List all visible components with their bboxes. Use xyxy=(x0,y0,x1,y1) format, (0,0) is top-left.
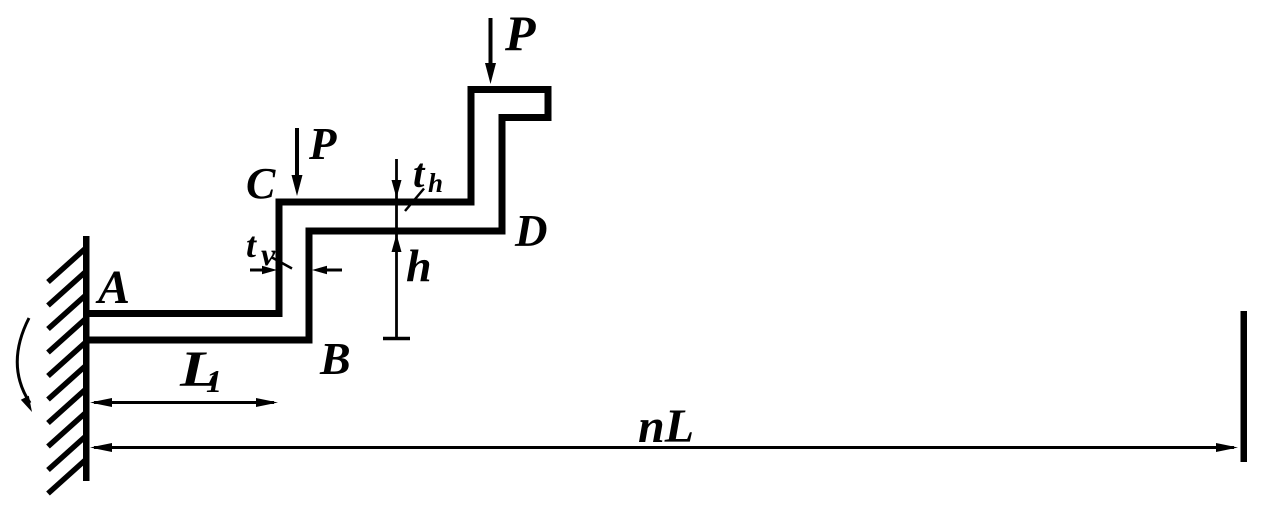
svg-text:P: P xyxy=(504,5,536,61)
svg-text:P: P xyxy=(308,119,337,169)
right end tick bar xyxy=(1241,311,1248,462)
svg-text:A: A xyxy=(95,261,130,314)
t_v dimension arrows xyxy=(250,269,266,272)
wall hatching xyxy=(48,247,87,494)
L1 dimension line xyxy=(94,401,274,404)
t_h leader line xyxy=(405,189,424,212)
svg-text:D: D xyxy=(514,206,548,256)
svg-text:1: 1 xyxy=(206,363,222,399)
svg-text:h: h xyxy=(406,240,432,291)
beam outline (stepped cantilever A-B-C-D) xyxy=(86,90,548,341)
nL dimension line xyxy=(94,446,1234,449)
load P arrow (top step) xyxy=(489,18,493,66)
t_v leader line xyxy=(272,258,292,269)
t_h dimension arrow xyxy=(395,159,398,338)
svg-text:h: h xyxy=(428,168,443,198)
svg-text:t: t xyxy=(246,225,257,265)
svg-text:v: v xyxy=(261,236,276,272)
svg-text:t: t xyxy=(413,150,426,196)
svg-text:nL: nL xyxy=(638,400,694,453)
wall (fixed support line) xyxy=(83,236,90,481)
load P arrow (at C) xyxy=(295,128,299,178)
moment curved arrow xyxy=(17,318,30,403)
svg-text:C: C xyxy=(246,159,276,208)
svg-text:B: B xyxy=(319,333,351,384)
h dimension arrow xyxy=(392,234,402,252)
